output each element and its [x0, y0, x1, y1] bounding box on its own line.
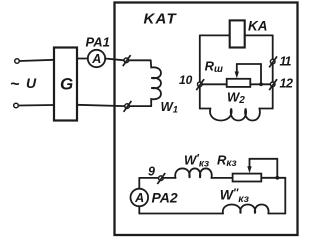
svg-text:12: 12 [280, 77, 293, 91]
svg-text:PA1: PA1 [86, 35, 110, 50]
svg-text:9: 9 [148, 165, 155, 179]
svg-text:~: ~ [10, 76, 20, 93]
svg-text:PA2: PA2 [152, 190, 178, 206]
svg-text:KA: KA [248, 19, 268, 34]
svg-text:U: U [26, 75, 37, 91]
svg-text:KAT: KAT [144, 11, 178, 28]
svg-text:G: G [60, 75, 73, 94]
svg-text:10: 10 [179, 73, 193, 87]
svg-text:11: 11 [280, 55, 292, 69]
svg-text:A: A [91, 52, 101, 66]
svg-text:A: A [134, 191, 144, 205]
